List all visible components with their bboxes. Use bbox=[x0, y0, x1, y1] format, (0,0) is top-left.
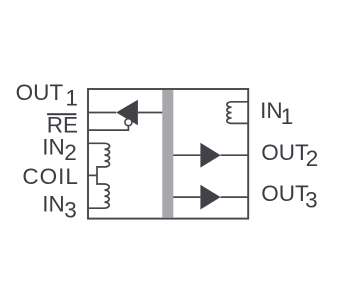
isolation barrier bbox=[162, 90, 173, 218]
svg-text:2: 2 bbox=[64, 140, 77, 165]
svg-text:1: 1 bbox=[65, 86, 78, 111]
wire IN2 bbox=[88, 142, 105, 144]
coil L2 (IN3 side) bbox=[105, 184, 110, 208]
wire buffer U4 to OUT3 bbox=[221, 196, 249, 198]
svg-text:3: 3 bbox=[64, 198, 77, 223]
svg-text:3: 3 bbox=[305, 187, 318, 212]
buffer U3 (driver OUT2, right-pointing) bbox=[200, 143, 220, 168]
svg-text:2: 2 bbox=[306, 146, 319, 171]
wire RE to enable bubble bbox=[88, 126, 128, 130]
svg-text:IN: IN bbox=[42, 192, 65, 217]
wire OUT1 to buffer tip bbox=[88, 112, 116, 114]
wire L1 bottom to center tap bbox=[97, 167, 105, 184]
IC outline U1 bbox=[88, 89, 248, 219]
wire barrier to buffer U3 bbox=[173, 154, 200, 156]
svg-text:IN: IN bbox=[260, 98, 283, 123]
svg-text:COIL: COIL bbox=[22, 164, 79, 189]
coil L1 (IN2 side) bbox=[105, 143, 110, 167]
enable bubble on buffer U2 bbox=[125, 119, 132, 126]
coil L3 (IN1 side) bbox=[227, 102, 232, 124]
svg-text:OUT: OUT bbox=[261, 181, 309, 206]
buffer U2 (receiver, left-pointing) bbox=[116, 100, 138, 126]
svg-text:OUT: OUT bbox=[261, 140, 309, 165]
wire IN1 coil bottom bbox=[232, 122, 249, 124]
wire buffer to barrier bbox=[138, 112, 162, 114]
wire COIL center tap bbox=[88, 174, 97, 176]
wire barrier to buffer U4 bbox=[173, 196, 200, 198]
wire buffer U3 to OUT2 bbox=[221, 154, 249, 156]
svg-text:OUT: OUT bbox=[16, 80, 64, 105]
svg-text:IN: IN bbox=[42, 134, 65, 159]
buffer U4 (driver OUT3, right-pointing) bbox=[200, 185, 220, 210]
wire IN3 bbox=[88, 207, 105, 209]
svg-text:1: 1 bbox=[281, 104, 294, 129]
overline of RE bbox=[47, 113, 76, 115]
wire IN1 coil top bbox=[232, 101, 249, 103]
